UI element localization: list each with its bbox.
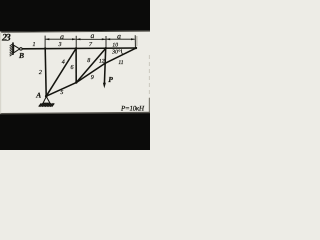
svg-text:23: 23 <box>1 33 11 44</box>
wall hatching <box>10 44 13 57</box>
svg-text:8: 8 <box>87 58 90 64</box>
svg-text:P=10кН: P=10кН <box>120 105 145 113</box>
support A triangle <box>43 97 50 104</box>
svg-text:10: 10 <box>112 43 118 49</box>
node N blob <box>104 63 106 65</box>
circuit/truss schematic scan, 150x150 <box>0 0 150 150</box>
svg-text:a: a <box>60 32 64 41</box>
svg-text:6: 6 <box>71 65 74 71</box>
svg-text:a: a <box>117 32 121 41</box>
svg-text:11: 11 <box>118 60 123 66</box>
dimension ticks <box>45 35 135 48</box>
paper background <box>0 0 150 150</box>
support A ground hatching <box>39 103 54 106</box>
svg-text:3: 3 <box>58 42 62 48</box>
member 6 vertical <box>75 48 77 82</box>
dimension lines with arrows <box>46 38 135 40</box>
node T4 <box>135 47 137 49</box>
svg-text:30°: 30° <box>111 49 121 55</box>
svg-text:A: A <box>35 91 41 100</box>
node T2 <box>75 47 77 49</box>
svg-text:5: 5 <box>60 90 63 96</box>
pin circle B <box>20 48 23 51</box>
member 12 vertical + load line <box>104 48 105 84</box>
member 2 vertical <box>45 48 46 96</box>
wall line <box>12 42 14 55</box>
svg-text:4: 4 <box>62 60 65 66</box>
member 11 diagonal 30deg <box>105 48 136 64</box>
node A blob <box>45 95 48 98</box>
angle arc 30deg <box>121 49 123 54</box>
scan artifact right edge <box>148 55 150 98</box>
load P arrowhead <box>103 83 106 89</box>
pin support B triangle <box>14 45 20 53</box>
member 5 bottom chord <box>46 83 76 97</box>
scan artifact left edge <box>0 32 1 114</box>
member 9 bottom chord <box>76 64 104 83</box>
node T3 <box>105 47 107 49</box>
top chord (members 1,3,7,10) <box>22 47 136 50</box>
node M blob <box>75 81 77 83</box>
bottom black band <box>0 113 150 150</box>
svg-text:a: a <box>91 31 95 40</box>
svg-text:1: 1 <box>33 42 36 48</box>
svg-text:P: P <box>108 75 113 84</box>
member 8 diagonal <box>76 48 106 82</box>
node T1 <box>44 47 46 49</box>
scan artifact right tick smudge <box>136 36 138 46</box>
svg-text:9: 9 <box>91 75 94 81</box>
top black band <box>0 0 150 32</box>
svg-text:2: 2 <box>39 70 42 76</box>
svg-text:B: B <box>18 51 24 60</box>
member 4 diagonal <box>46 48 76 96</box>
